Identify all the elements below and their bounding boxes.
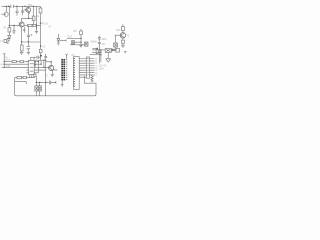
wire feed2 [92, 51, 101, 53]
resistor R3 [8, 26, 11, 36]
wire feed3 [90, 54, 101, 56]
wire feed1 [92, 49, 105, 51]
label U1 inner [30, 63, 34, 72]
box U1top [31, 57, 34, 60]
diode D4 [112, 49, 114, 51]
svg-text:C7: C7 [48, 26, 52, 29]
labels stub [95, 58, 99, 76]
ground G5 [57, 43, 60, 45]
capacitor C2 [16, 6, 19, 15]
pins U2 right wires [79, 59, 86, 78]
resistor R8 [121, 24, 124, 32]
resistor RB2 [23, 76, 26, 78]
microphone MK1 [1, 6, 8, 16]
wire in1c [24, 61, 30, 63]
svg-text:100n: 100n [101, 38, 107, 41]
resistor R2 [39, 6, 42, 23]
node J14 [100, 52, 101, 53]
wire diode-drops [36, 76, 39, 96]
node J31 [33, 6, 34, 7]
wire ground loop [15, 76, 96, 96]
diode D2 [57, 34, 60, 43]
svg-text:R8: R8 [73, 30, 77, 33]
wire mid1 [67, 37, 81, 39]
wire under-IC [15, 77, 35, 79]
ground G6 [79, 46, 82, 48]
pin bubble B1 [34, 62, 36, 64]
capacitor C7 [13, 26, 16, 35]
svg-text:IN: IN [0, 64, 3, 66]
node J17 [3, 63, 4, 64]
capacitor C6 [27, 42, 31, 52]
wire mid2 [70, 44, 85, 46]
node J10 [40, 45, 41, 46]
node J3 [16, 6, 17, 7]
resistor network RN1 [86, 57, 89, 78]
resistor R7b [33, 24, 37, 26]
transistor Q1 [24, 6, 30, 14]
wire rail2 [9, 25, 19, 27]
diode D1 [8, 36, 11, 40]
ground G10 [61, 84, 64, 86]
svg-text:R14: R14 [6, 60, 11, 62]
ground G9 [106, 59, 111, 62]
svg-text:LS: LS [0, 41, 3, 43]
transistor Q3 [115, 33, 126, 39]
resistor R13 [39, 49, 42, 60]
svg-text:1k: 1k [37, 16, 40, 18]
diode D7 [38, 86, 41, 91]
wire rail-drop [8, 6, 10, 25]
capacitor C5 electrolytic [27, 25, 32, 42]
wire in1 [4, 61, 12, 63]
wire d2-right [60, 39, 66, 41]
wire in2 [4, 63, 29, 65]
IC U1 [28, 60, 34, 74]
capacitor C15 [44, 54, 47, 60]
capacitor C9 [98, 42, 101, 50]
diode D6 [35, 86, 38, 91]
node J2 [8, 6, 9, 7]
ground G1 [20, 52, 24, 54]
node J15 [100, 54, 101, 55]
wire right-drop [99, 44, 101, 64]
ground G8 [124, 51, 127, 53]
wire in3 [2, 66, 29, 68]
svg-text:R1: R1 [3, 26, 7, 29]
resistor R11 [12, 61, 16, 63]
wire in1b [16, 61, 20, 63]
wire rail2b [24, 24, 40, 26]
capacitor C8 [98, 36, 101, 42]
node J5 [40, 23, 41, 24]
wire left-in [3, 54, 6, 68]
node J6 [9, 25, 10, 26]
node J28 [40, 64, 41, 65]
node J11 [80, 38, 81, 39]
svg-text:230V: 230V [99, 68, 105, 70]
svg-text:OUT: OUT [67, 36, 73, 39]
diode D3 [114, 35, 118, 50]
node J24 [51, 61, 52, 62]
pin stubs bottom U1 [30, 75, 32, 78]
box K1 [116, 48, 120, 52]
resistor K3 [93, 48, 99, 53]
node J8 [21, 41, 22, 42]
svg-text:T2: T2 [126, 34, 129, 37]
crystal X2 [85, 42, 89, 46]
header pin labels [66, 59, 67, 80]
wire top rail [2, 5, 41, 7]
resistor R4 [20, 42, 23, 52]
node J25 [45, 82, 46, 83]
node J22 [39, 82, 40, 83]
relay RL1 [105, 49, 111, 53]
node J18 [3, 67, 4, 68]
wire top-bus [35, 59, 47, 61]
IC U2 [73, 57, 79, 90]
capacitor C1 [11, 5, 13, 8]
wire drop40 [40, 23, 42, 49]
node J27 [38, 61, 39, 62]
pin stubs left U1 low [27, 70, 30, 73]
node J9 [28, 41, 29, 42]
wire relay-right [111, 49, 117, 51]
resistor R16 [32, 6, 35, 25]
wire collector drop [36, 6, 38, 29]
node J7 [13, 25, 14, 26]
wire bus right [38, 60, 45, 96]
svg-text:D7: D7 [95, 75, 99, 77]
pins U2 left [74, 58, 75, 87]
ground G7 [121, 45, 125, 47]
ground G2 [27, 52, 31, 54]
resistor R9 [121, 38, 124, 45]
node J21 [36, 82, 37, 83]
transistor Q4 [45, 62, 58, 71]
wire header-top [66, 54, 68, 59]
capacitor C4 [23, 27, 25, 33]
ground G3 [35, 25, 38, 33]
node J13 [100, 49, 101, 50]
svg-text:TR1: TR1 [28, 4, 33, 7]
transistor Q2 [19, 22, 24, 27]
node J16 [3, 61, 4, 62]
node J23 [40, 55, 42, 57]
resistor R7 [80, 29, 83, 46]
capacitor C14 [34, 56, 41, 59]
ground G11 [51, 75, 55, 77]
wire header-gnd [61, 80, 63, 84]
resistor RB1 [17, 76, 22, 78]
svg-text:12V AC: 12V AC [99, 65, 107, 68]
svg-text:+9: +9 [42, 47, 45, 49]
wire stub-L [15, 81, 27, 84]
node J32 [96, 48, 98, 50]
zigzag RZ [91, 76, 93, 83]
pin stubs right U1 [34, 62, 46, 73]
node J4 [24, 6, 25, 7]
wire Q1-emitter-drop [28, 12, 30, 18]
node J12 [80, 42, 81, 43]
pin bubble B2 [34, 64, 36, 66]
svg-text:T3: T3 [45, 76, 48, 78]
capacitor C3 [21, 6, 24, 15]
node J30 [28, 18, 29, 19]
box C13 [34, 74, 37, 76]
node J1 [6, 6, 7, 7]
speaker LS1 [4, 38, 10, 43]
node J26 [36, 25, 37, 26]
resistor R6 [27, 24, 32, 26]
wire emitter-net [22, 27, 41, 42]
wire Q4-emitter [51, 70, 53, 74]
stub wires right [90, 59, 95, 75]
node J29 [43, 67, 44, 68]
svg-text:4MHz: 4MHz [90, 40, 97, 43]
resistor R12 [20, 61, 24, 63]
header JP1 [61, 59, 65, 80]
crystal X1 [72, 41, 82, 44]
node J19 [43, 60, 44, 61]
wire feedback [22, 18, 34, 22]
wire relay-gnd [107, 53, 109, 59]
svg-text:R10: R10 [116, 29, 121, 32]
svg-text:10u: 10u [101, 43, 106, 46]
capacitor C16 [36, 81, 56, 85]
